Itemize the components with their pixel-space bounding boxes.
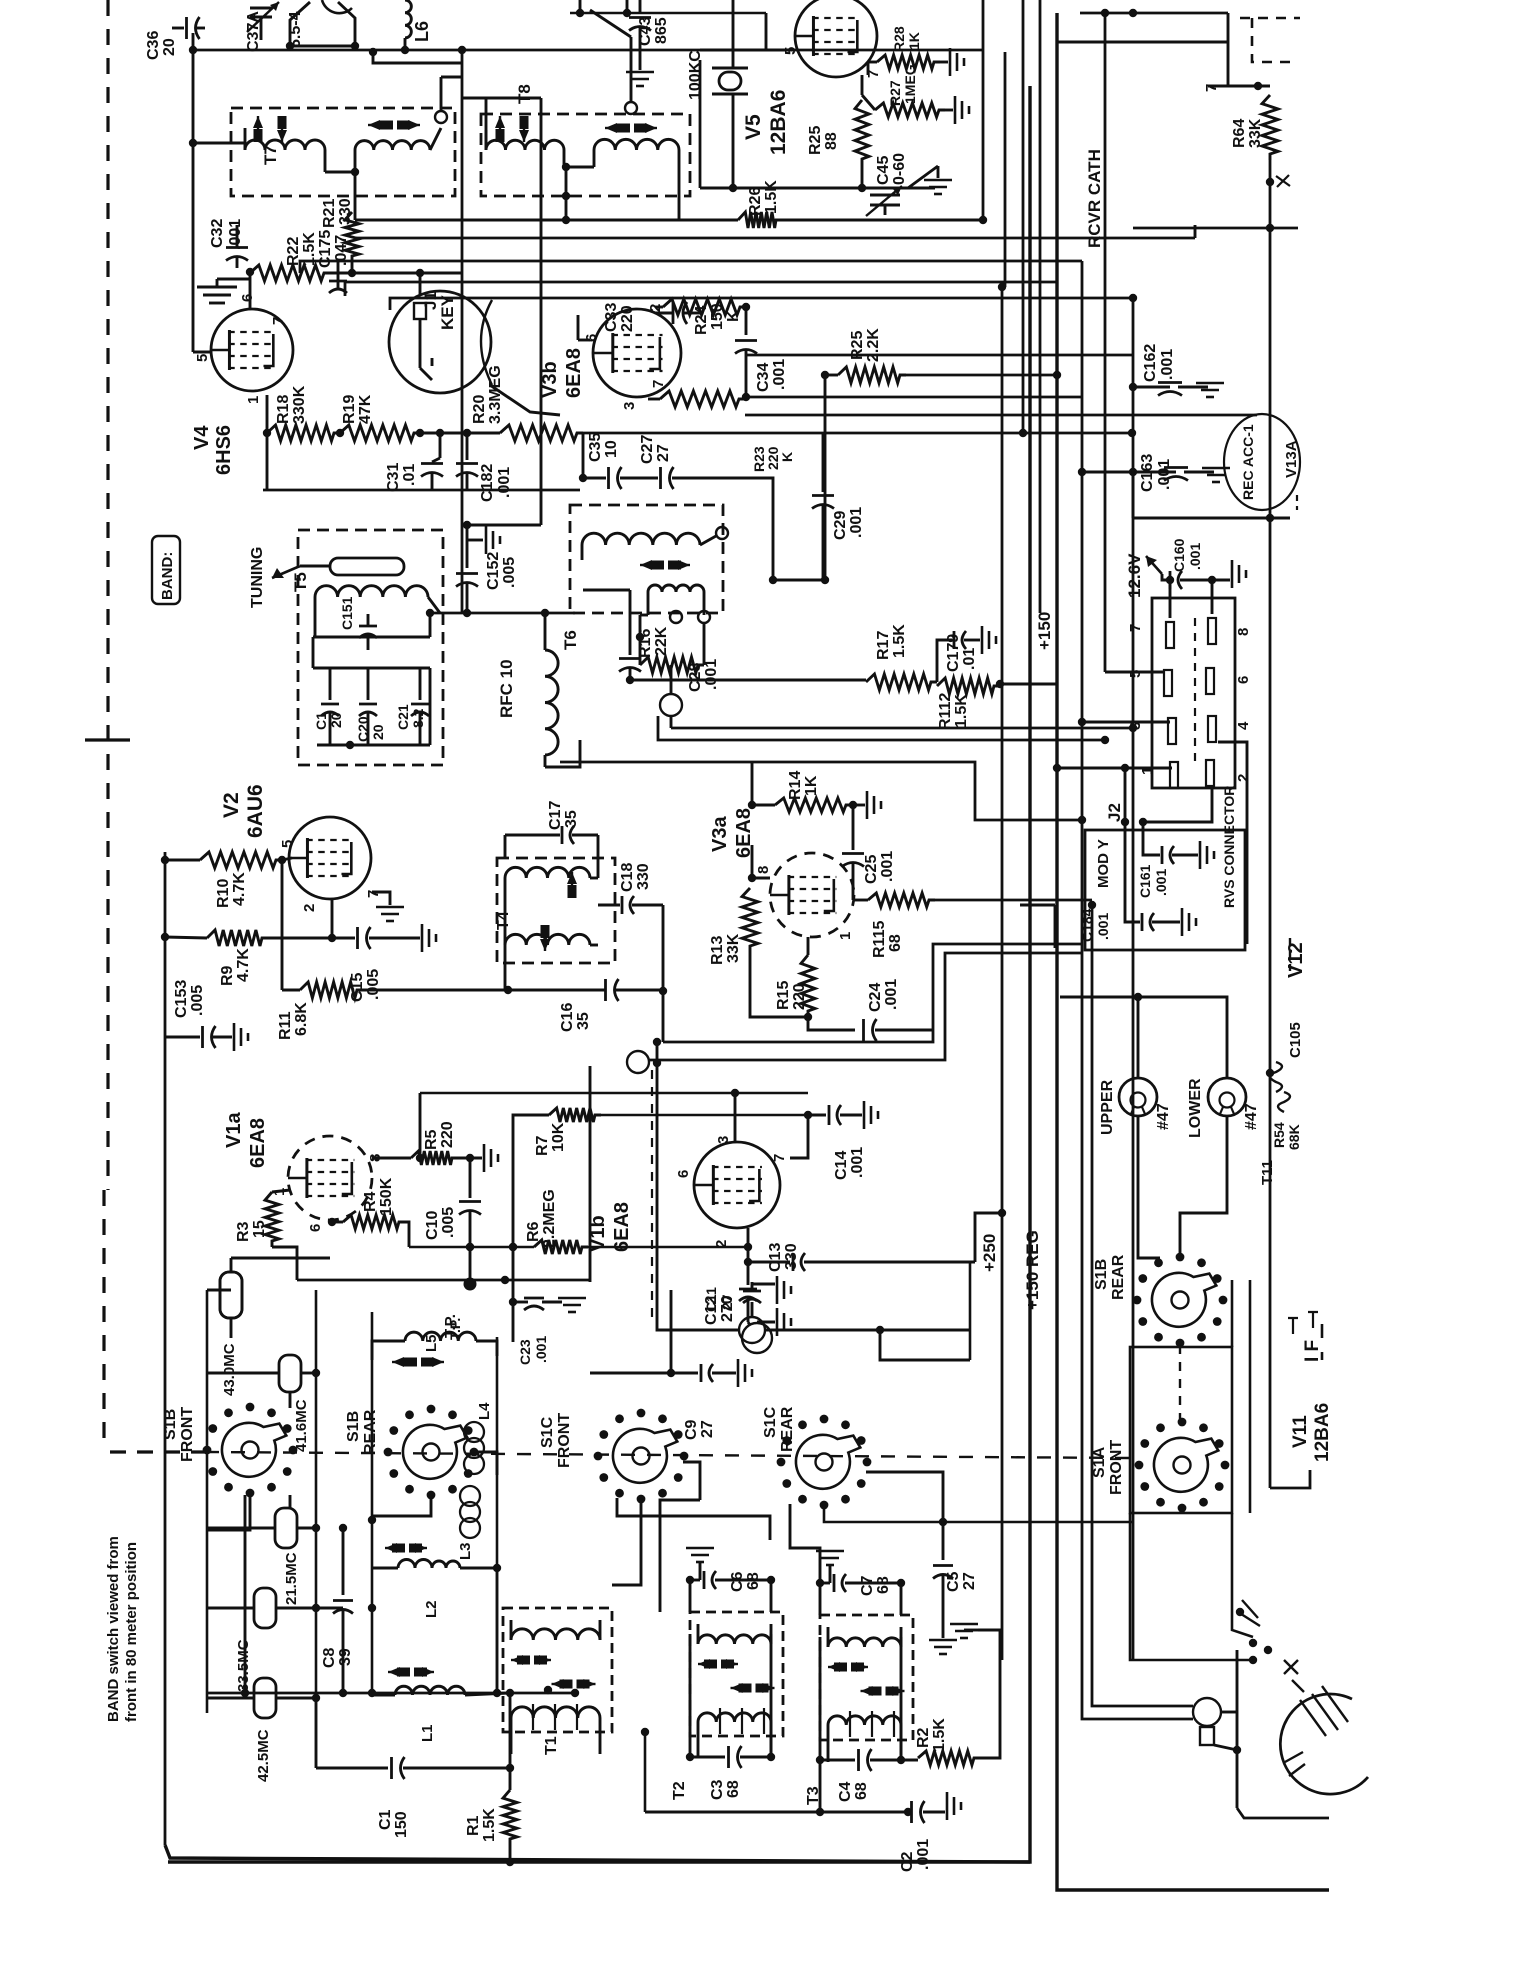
svg-text:.001: .001 bbox=[1153, 869, 1169, 896]
svg-text:V13A: V13A bbox=[1283, 440, 1300, 478]
svg-text:0-60: 0-60 bbox=[891, 153, 908, 185]
wire bus bbox=[345, 282, 1057, 296]
svg-text:R7: R7 bbox=[534, 1135, 551, 1156]
svg-text:1MEG: 1MEG bbox=[902, 64, 918, 104]
svg-text:R11: R11 bbox=[277, 1011, 294, 1040]
terminal bbox=[742, 1323, 772, 1353]
svg-text:.001: .001 bbox=[915, 1839, 932, 1870]
wire bottom rail bbox=[165, 1845, 1030, 1862]
svg-text:C34: C34 bbox=[755, 363, 772, 392]
resistor R15 220 bbox=[801, 955, 815, 1017]
transformer T4 box bbox=[497, 858, 615, 963]
tuning slug bbox=[330, 558, 404, 575]
resistor R10 4.7K bbox=[200, 852, 282, 868]
switch S1B REAR right bbox=[1172, 1292, 1189, 1309]
node bbox=[246, 268, 254, 276]
wire bbox=[671, 727, 1133, 730]
node bbox=[667, 1369, 675, 1377]
svg-text:C25: C25 bbox=[863, 855, 880, 884]
terminal bbox=[435, 111, 447, 123]
svg-text:3: 3 bbox=[715, 1136, 732, 1144]
resistor R26 1.5K bbox=[738, 212, 782, 228]
inductor T1 primary bbox=[511, 1629, 600, 1640]
svg-text:#47: #47 bbox=[1243, 1103, 1260, 1130]
wire bbox=[1249, 1280, 1252, 1513]
terminal bbox=[627, 1051, 649, 1073]
svg-text:.005: .005 bbox=[365, 969, 382, 1000]
svg-text:330: 330 bbox=[635, 863, 652, 890]
svg-text:1.5K: 1.5K bbox=[763, 180, 780, 214]
wire bbox=[193, 142, 245, 145]
svg-text:TUNING: TUNING bbox=[249, 547, 266, 608]
svg-text:R5: R5 bbox=[423, 1129, 440, 1150]
svg-text:T8: T8 bbox=[515, 84, 534, 104]
wire bbox=[678, 196, 681, 220]
svg-text:5: 5 bbox=[194, 354, 211, 362]
svg-text:FRONT: FRONT bbox=[179, 1407, 196, 1462]
crystal 33.5MC bbox=[254, 1588, 276, 1628]
svg-text:220: 220 bbox=[791, 983, 808, 1010]
svg-text:88: 88 bbox=[823, 132, 840, 150]
svg-text:1: 1 bbox=[245, 396, 262, 404]
svg-text:KEY: KEY bbox=[438, 294, 457, 330]
wire bus RCVR CATH bbox=[355, 219, 738, 222]
svg-text:330K: 330K bbox=[291, 385, 308, 424]
svg-text:6AU6: 6AU6 bbox=[244, 784, 267, 838]
wire bbox=[670, 1290, 673, 1373]
wire pin6 bbox=[331, 1220, 334, 1222]
svg-text:27: 27 bbox=[655, 444, 672, 462]
wire bbox=[496, 1337, 499, 1568]
transformer T7 secondary winding bbox=[355, 141, 430, 150]
svg-text:T11: T11 bbox=[1259, 1160, 1276, 1185]
wire bbox=[1208, 85, 1270, 88]
dash centerline bbox=[205, 1452, 1130, 1458]
transformer T7 primary winding bbox=[245, 140, 325, 150]
tuning slug arrows T8 secondary bbox=[605, 127, 617, 129]
crystal 21.5MC bbox=[275, 1508, 297, 1548]
svg-text:6HS6: 6HS6 bbox=[213, 425, 235, 475]
wire pin8 up bbox=[751, 845, 754, 878]
svg-text:68: 68 bbox=[875, 1576, 892, 1594]
svg-text:.001: .001 bbox=[533, 1336, 549, 1363]
wire bbox=[313, 636, 430, 639]
dashed link to V13 bbox=[1252, 18, 1296, 62]
svg-text:C9: C9 bbox=[683, 1419, 700, 1440]
wire bbox=[429, 613, 432, 637]
inductor T3 secondary bbox=[828, 1716, 901, 1725]
transformer T3 box bbox=[820, 1615, 913, 1740]
wire bbox=[1138, 1116, 1160, 1258]
tube V2 6AU6 bbox=[289, 817, 371, 899]
svg-text:UPPER: UPPER bbox=[1099, 1079, 1116, 1135]
wire bbox=[699, 60, 702, 188]
svg-text:6: 6 bbox=[239, 294, 256, 302]
tuning slug arrows T8 primary bbox=[499, 116, 501, 142]
capacitor C35 10 bbox=[607, 467, 610, 489]
resistor R11 6.8K bbox=[300, 982, 363, 998]
wire bus bbox=[355, 237, 1195, 240]
slug arrows T1 bbox=[511, 1659, 517, 1661]
svg-text:42.5MC: 42.5MC bbox=[255, 1729, 272, 1782]
switch S1B REAR bbox=[423, 1444, 440, 1461]
wire plate bus bbox=[420, 1092, 808, 1095]
svg-text:5: 5 bbox=[279, 840, 296, 848]
svg-text:LOWER: LOWER bbox=[1187, 1078, 1204, 1138]
resistor R115 68 bbox=[868, 893, 935, 907]
wire bbox=[462, 97, 541, 100]
hand X marks bbox=[1284, 1660, 1304, 1692]
wire bbox=[1231, 1280, 1234, 1347]
svg-text:33K: 33K bbox=[725, 933, 742, 963]
wire bbox=[330, 272, 462, 275]
wire bbox=[657, 1290, 739, 1330]
slug arrows T3 bbox=[828, 1666, 834, 1668]
resistor R5 220 bbox=[411, 1151, 458, 1165]
wire bus vertical bbox=[1004, 52, 1007, 287]
wire bbox=[420, 432, 500, 435]
wire bbox=[852, 804, 865, 807]
svg-text:.001: .001 bbox=[771, 359, 788, 390]
svg-text:68K: 68K bbox=[1286, 1124, 1302, 1150]
svg-text:1.5K: 1.5K bbox=[481, 1808, 498, 1842]
wire bbox=[866, 1472, 943, 1522]
svg-text:6: 6 bbox=[675, 1170, 692, 1178]
svg-text:V5: V5 bbox=[742, 114, 765, 140]
svg-text:C35: C35 bbox=[587, 433, 604, 462]
svg-text:R28: R28 bbox=[891, 26, 907, 52]
svg-text:R21: R21 bbox=[321, 199, 338, 228]
slug arrows L2 bbox=[385, 1547, 392, 1549]
wire bbox=[1124, 768, 1127, 822]
transformer T6 box bbox=[570, 505, 723, 613]
wire bbox=[373, 52, 462, 63]
slug arrows L1 bbox=[388, 1671, 397, 1673]
svg-text:.001: .001 bbox=[1156, 459, 1173, 490]
wire bbox=[1237, 1808, 1329, 1818]
svg-text:L1: L1 bbox=[419, 1724, 436, 1742]
svg-text:R14: R14 bbox=[787, 771, 804, 800]
svg-text:R115: R115 bbox=[871, 921, 888, 958]
ground bbox=[757, 1321, 775, 1324]
wire bbox=[289, 1495, 292, 1508]
svg-text:.001: .001 bbox=[849, 1147, 866, 1178]
svg-text:7: 7 bbox=[270, 317, 287, 325]
svg-text:R64: R64 bbox=[1231, 119, 1248, 148]
svg-text:RVS CONNECTOR: RVS CONNECTOR bbox=[1221, 786, 1237, 908]
node bbox=[659, 987, 667, 995]
svg-text:.001: .001 bbox=[1095, 913, 1111, 940]
resistor R14 1K bbox=[775, 798, 852, 812]
resistor R3 15 bbox=[265, 1192, 279, 1247]
wire bbox=[372, 1495, 431, 1516]
svg-text:.001: .001 bbox=[496, 467, 513, 498]
slug arrows T2 bbox=[698, 1663, 704, 1665]
svg-text:2.2MEG: 2.2MEG bbox=[541, 1189, 558, 1248]
switch S1C REAR bbox=[816, 1454, 833, 1471]
wire bbox=[504, 945, 507, 990]
slug arrows L5 bbox=[392, 1361, 404, 1363]
svg-text:.001: .001 bbox=[227, 219, 244, 250]
svg-text:1.5K: 1.5K bbox=[931, 1718, 948, 1752]
svg-text:C16: C16 bbox=[559, 1003, 576, 1032]
svg-text:V2: V2 bbox=[220, 792, 243, 818]
node bbox=[748, 801, 756, 809]
wire bbox=[363, 989, 605, 992]
node bbox=[466, 1154, 474, 1162]
wire pin3 bbox=[1082, 721, 1170, 724]
ground bbox=[1212, 579, 1230, 582]
wire bbox=[620, 477, 658, 480]
socket pins bbox=[1166, 622, 1174, 648]
svg-text:C184: C184 bbox=[1079, 908, 1095, 942]
svg-text:8: 8 bbox=[1235, 628, 1252, 636]
wire bbox=[617, 1498, 770, 1540]
svg-text:4: 4 bbox=[1235, 721, 1252, 730]
resistor R25b 88 bbox=[855, 100, 869, 165]
svg-text:7: 7 bbox=[1203, 84, 1220, 92]
wire bbox=[565, 167, 568, 220]
svg-text:12BA6: 12BA6 bbox=[1312, 1403, 1333, 1462]
feedthru terminal bbox=[1193, 1698, 1221, 1726]
svg-text:REAR: REAR bbox=[362, 1409, 379, 1455]
tube V3b 6EA8 bbox=[593, 309, 681, 397]
wire pin1 bbox=[1057, 767, 1172, 770]
wire bbox=[861, 165, 864, 188]
svg-text:4.7K: 4.7K bbox=[235, 948, 252, 982]
node bbox=[278, 856, 286, 864]
svg-text:C18: C18 bbox=[619, 863, 636, 892]
wire bbox=[467, 524, 541, 527]
wire bbox=[317, 744, 430, 747]
svg-text:7: 7 bbox=[1127, 624, 1144, 632]
svg-text:6.8K: 6.8K bbox=[293, 1002, 310, 1036]
wire bbox=[656, 1042, 659, 1290]
wire bbox=[207, 1527, 275, 1530]
wire bus vertical bbox=[1057, 13, 1329, 1890]
wire pin6 bbox=[249, 272, 252, 309]
inductor L2 bbox=[398, 1560, 432, 1568]
wire bbox=[700, 49, 795, 52]
wire bbox=[601, 1114, 808, 1117]
svg-text:R25: R25 bbox=[807, 126, 824, 155]
tube V4 6HS6 bbox=[211, 309, 293, 391]
svg-text:20: 20 bbox=[161, 38, 178, 56]
wire bbox=[790, 1504, 820, 1583]
wire bbox=[207, 1372, 279, 1375]
wire bbox=[975, 1213, 1002, 1262]
svg-text:V3a: V3a bbox=[709, 816, 731, 852]
switch S1B FRONT bbox=[242, 1442, 259, 1459]
svg-text:C2: C2 bbox=[899, 1851, 916, 1872]
svg-text:R6: R6 bbox=[525, 1221, 542, 1242]
node j1 bbox=[189, 46, 197, 54]
wire pin8 bbox=[372, 1157, 411, 1160]
node bbox=[996, 680, 1004, 688]
ground bbox=[924, 179, 952, 182]
svg-text:R4: R4 bbox=[362, 1191, 379, 1212]
svg-text:7: 7 bbox=[771, 1154, 788, 1162]
svg-text:1.5K: 1.5K bbox=[953, 694, 970, 728]
wire bbox=[644, 1732, 647, 1812]
svg-text:R1: R1 bbox=[465, 1815, 482, 1836]
inductor T5 winding bbox=[315, 586, 428, 597]
wire bbox=[588, 1246, 748, 1249]
capacitor C27 27 bbox=[659, 467, 662, 489]
inductor L5 bbox=[405, 1332, 476, 1341]
wire bbox=[640, 614, 648, 617]
wire bbox=[1221, 1711, 1237, 1714]
svg-text:6EA8: 6EA8 bbox=[247, 1118, 269, 1168]
svg-text:.01: .01 bbox=[961, 648, 978, 670]
node cluster bbox=[1236, 1608, 1244, 1616]
svg-text:220: 220 bbox=[619, 305, 636, 332]
inductor T2 primary bbox=[698, 1635, 771, 1644]
svg-text:R18: R18 bbox=[275, 395, 292, 424]
node bbox=[263, 429, 271, 437]
svg-text:R26: R26 bbox=[747, 187, 764, 216]
svg-text:R13: R13 bbox=[709, 936, 726, 965]
svg-text:+150 REG: +150 REG bbox=[1023, 1230, 1042, 1310]
svg-text:+250: +250 bbox=[980, 1234, 999, 1272]
svg-text:L3: L3 bbox=[457, 1542, 474, 1560]
svg-text:7: 7 bbox=[650, 380, 667, 388]
wire bbox=[630, 37, 633, 102]
svg-text:S1A: S1A bbox=[1091, 1446, 1108, 1478]
inductor T3 primary bbox=[828, 1638, 901, 1647]
crystal 43.0MC bbox=[220, 1272, 242, 1318]
svg-text:R2: R2 bbox=[915, 1727, 932, 1748]
tube V10 envelope partial bbox=[1280, 1694, 1368, 1794]
wire bbox=[490, 385, 560, 415]
wire pin5 bbox=[1105, 671, 1165, 674]
wire bus vertical +250 bbox=[1001, 287, 1004, 1660]
wire bbox=[782, 219, 983, 222]
balloon REC ACC-1 bbox=[1224, 414, 1300, 510]
grid shield bbox=[197, 286, 237, 289]
wire bbox=[1080, 12, 1228, 15]
wire bbox=[440, 77, 443, 111]
svg-text:T1: T1 bbox=[543, 1736, 560, 1755]
node bbox=[821, 371, 829, 379]
tuning slug arrows bbox=[640, 564, 651, 566]
wire bbox=[824, 375, 827, 580]
inductor L6 bbox=[405, 0, 411, 38]
wire bbox=[1227, 13, 1230, 86]
svg-text:8: 8 bbox=[755, 866, 772, 874]
svg-text:330: 330 bbox=[337, 198, 354, 225]
svg-text:.005: .005 bbox=[189, 985, 206, 1016]
test point T.P. bbox=[469, 1247, 472, 1280]
svg-text:T.P.: T.P. bbox=[447, 1318, 463, 1340]
svg-text:220: 220 bbox=[439, 1121, 456, 1148]
node bbox=[562, 163, 570, 171]
wire pin5 bbox=[193, 351, 212, 354]
svg-text:C160: C160 bbox=[1171, 538, 1187, 572]
wire pin2 bbox=[1143, 786, 1212, 822]
svg-text:V11: V11 bbox=[1290, 1415, 1311, 1448]
tuning slug arrows T7 primary bbox=[257, 116, 259, 142]
wire bbox=[658, 716, 1105, 740]
svg-text:K: K bbox=[779, 452, 795, 462]
svg-text:.001: .001 bbox=[1159, 349, 1176, 380]
svg-text:R15: R15 bbox=[775, 981, 792, 1010]
svg-text:C32: C32 bbox=[209, 219, 226, 248]
svg-text:C21: C21 bbox=[395, 704, 411, 730]
wire bus vertical bbox=[1082, 261, 1193, 1719]
svg-text:J2: J2 bbox=[1105, 803, 1124, 822]
wire bbox=[263, 489, 580, 492]
resistor R18 330K bbox=[267, 425, 340, 441]
wire bbox=[207, 1697, 254, 1700]
node bbox=[742, 303, 750, 311]
node bbox=[579, 474, 587, 482]
svg-text:330: 330 bbox=[783, 1243, 800, 1270]
resistor R27 1MEG bbox=[875, 103, 945, 117]
svg-text:MOD Y: MOD Y bbox=[1095, 839, 1112, 888]
terminal bbox=[625, 102, 637, 114]
wire bbox=[746, 396, 1082, 399]
svg-text:.001: .001 bbox=[1187, 543, 1203, 570]
node bbox=[742, 393, 750, 401]
svg-text:100KC: 100KC bbox=[687, 50, 704, 100]
transformer T8 primary winding bbox=[486, 140, 564, 150]
inductor T6 primary bbox=[582, 533, 700, 545]
svg-text:22K: 22K bbox=[653, 626, 670, 656]
wire bbox=[281, 860, 284, 990]
wire bbox=[570, 12, 766, 15]
wire pin4 bbox=[1218, 742, 1247, 944]
svg-text:6EA8: 6EA8 bbox=[611, 1202, 633, 1252]
svg-text:I F: I F bbox=[1302, 1340, 1323, 1362]
hand gamma marks bbox=[1288, 1312, 1318, 1334]
wire bbox=[683, 1462, 700, 1500]
wire bus vertical RCVR line bbox=[1104, 13, 1107, 672]
wire bus vertical bbox=[1092, 905, 1193, 1706]
svg-text:10: 10 bbox=[603, 440, 620, 458]
wire bbox=[207, 1607, 254, 1610]
socket J2 outline bbox=[1152, 598, 1235, 788]
wire box bbox=[1130, 1347, 1232, 1513]
wire bbox=[297, 1279, 590, 1282]
terminal bbox=[670, 611, 682, 623]
svg-text:2: 2 bbox=[301, 904, 318, 912]
wire bbox=[630, 679, 866, 682]
svg-text:#47: #47 bbox=[1155, 1103, 1172, 1130]
svg-text:REC ACC-1: REC ACC-1 bbox=[1240, 424, 1256, 500]
connector box outline bbox=[1085, 830, 1245, 950]
svg-text:R20: R20 bbox=[471, 395, 488, 424]
svg-text:REAR: REAR bbox=[779, 1406, 796, 1452]
svg-text:27: 27 bbox=[699, 1420, 716, 1438]
svg-text:C24: C24 bbox=[867, 983, 884, 1012]
lamp LOWER #47 bbox=[1208, 1078, 1246, 1116]
inductor T4 primary bbox=[505, 867, 590, 878]
wire bbox=[589, 1066, 592, 1282]
dash link bbox=[1179, 1345, 1181, 1424]
svg-text:.001: .001 bbox=[848, 507, 865, 538]
svg-text:C151: C151 bbox=[339, 596, 355, 630]
svg-text:68: 68 bbox=[853, 1782, 870, 1800]
capacitor C36 bbox=[172, 27, 184, 30]
wire bbox=[612, 1498, 641, 1585]
svg-text:1K: 1K bbox=[906, 32, 922, 50]
svg-text:R54: R54 bbox=[1271, 1122, 1287, 1148]
wire bbox=[266, 395, 269, 490]
resistor R24 150K bbox=[663, 299, 746, 315]
wire bbox=[1060, 997, 1227, 1078]
wire bbox=[513, 1115, 549, 1342]
